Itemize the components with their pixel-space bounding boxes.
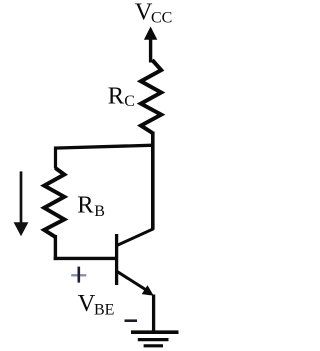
Vcc supply arrow <box>144 27 157 63</box>
wire top horizontal <box>54 145 154 148</box>
label VBE <box>78 290 115 319</box>
svg-text:C: C <box>124 93 135 110</box>
transistor Q1 base bar <box>115 234 118 285</box>
transistor emitter diagonal with arrow <box>117 271 154 296</box>
wire left vertical bottom <box>54 235 57 260</box>
svg-text:R: R <box>77 192 94 219</box>
transistor collector diagonal <box>117 229 154 246</box>
label RC <box>108 82 135 110</box>
wire left vertical top <box>54 147 57 169</box>
svg-text:CC: CC <box>151 9 172 26</box>
wire collector vertical <box>151 132 155 230</box>
ground symbol <box>131 332 179 346</box>
minus sign <box>125 319 138 322</box>
svg-text:R: R <box>108 82 125 109</box>
wire base horizontal <box>54 257 117 260</box>
svg-text:BE: BE <box>94 302 114 319</box>
node VCC label <box>135 0 173 26</box>
resistor RB <box>44 168 64 237</box>
label RB <box>77 192 105 220</box>
wire emitter to ground <box>152 295 155 333</box>
resistor RC <box>141 60 161 133</box>
svg-text:V: V <box>78 290 96 317</box>
svg-text:B: B <box>94 203 105 220</box>
current direction arrow (left, pointing down) <box>14 171 29 236</box>
plus sign <box>71 267 86 283</box>
